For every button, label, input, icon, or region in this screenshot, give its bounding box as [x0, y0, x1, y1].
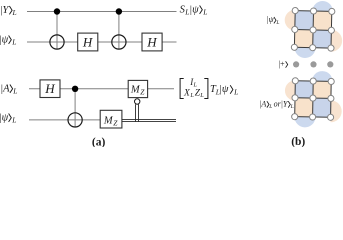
- label |A>_L or |Y>_L for lattice 2: [259, 99, 293, 110]
- svg-text:|ψ: |ψ: [0, 34, 9, 45]
- lattice 1: Z stabilizer top bump: [312, 1, 333, 12]
- classical control open circle: [135, 99, 140, 104]
- svg-text:|Y: |Y: [281, 99, 289, 108]
- lattice 2: Z stabilizer top bump: [312, 71, 333, 82]
- CNOT 1 vertical wire: [56, 12, 58, 49]
- lattice 1 qubit vertices: [291, 7, 335, 51]
- label I_L upper matrix entry: [189, 77, 197, 89]
- svg-text:L: L: [189, 92, 194, 99]
- CNOT 2 control dot: [116, 8, 122, 14]
- label |psi>_L for lattice 1: [266, 15, 279, 26]
- lattice 1: X stabilizer right bump: [331, 30, 342, 52]
- bracket left of correction matrix: [180, 79, 184, 99]
- svg-text:L: L: [275, 20, 279, 26]
- classical vertical double wire: [136, 104, 139, 121]
- svg-text:|Y: |Y: [0, 5, 9, 16]
- ancilla qubit dot 1: [293, 61, 299, 67]
- label X_L Z_L lower matrix entry: [183, 88, 204, 99]
- lattice 2 grid lines: [295, 81, 332, 118]
- CNOT 3 target: [68, 113, 82, 127]
- lattice 2: plaquette orange bottom-left: [295, 98, 313, 117]
- lattice 2: plaquette orange top-right: [313, 81, 331, 98]
- svg-text:|ψ: |ψ: [189, 4, 199, 15]
- lattice 1: plaquette orange top-right: [313, 11, 332, 30]
- svg-text:|A: |A: [259, 99, 266, 108]
- CNOT 2 vertical wire: [118, 12, 120, 49]
- CNOT 3 vertical wire: [74, 89, 76, 127]
- wire qubit |psi>_L fourth line: [29, 119, 100, 121]
- lattice 1: X stabilizer left bump: [284, 10, 295, 31]
- gate M_Z top measurement: [128, 80, 147, 97]
- svg-text:L: L: [233, 87, 238, 96]
- bracket right of correction matrix: [204, 79, 208, 99]
- lattice 1: plaquette orange bottom-left: [294, 29, 313, 47]
- svg-text:|ψ: |ψ: [266, 15, 274, 24]
- label |psi>_L (top circuit): [0, 34, 16, 46]
- lattice 2: plaquette blue top-left: [295, 81, 313, 98]
- lattice 2: X stabilizer left bump: [285, 80, 296, 101]
- ancilla qubit dot 2: [310, 61, 316, 67]
- svg-text:H: H: [146, 34, 157, 49]
- CNOT 1 target: [50, 35, 64, 49]
- lattice 2: X stabilizer right bump: [330, 100, 341, 122]
- svg-text:|ψ: |ψ: [219, 84, 229, 95]
- label |+> ancilla: [279, 60, 288, 69]
- svg-text:(a): (a): [92, 136, 106, 147]
- svg-text:L: L: [11, 38, 16, 47]
- gate H 1: [78, 33, 98, 51]
- svg-text:|+: |+: [279, 60, 286, 69]
- label T_L |psi>_L output: [210, 84, 238, 96]
- lattice 1: Z stabilizer bottom bump: [294, 47, 315, 58]
- wire qubit |psi>_L second line: [27, 41, 177, 43]
- CNOT 2 target: [112, 35, 126, 49]
- svg-text:|A: |A: [0, 83, 10, 94]
- label S_L |psi>_L output: [180, 4, 208, 16]
- gate H 3: [40, 80, 60, 98]
- CNOT 3 control dot: [72, 86, 78, 92]
- wire qubit |Y>_L top line: [27, 11, 177, 13]
- lattice 1 grid lines: [294, 11, 331, 49]
- svg-text:H: H: [82, 34, 93, 49]
- lattice 2 qubit vertices: [292, 78, 335, 121]
- svg-text:H: H: [44, 81, 55, 96]
- lattice 2: Z stabilizer bottom bump: [294, 117, 315, 128]
- svg-text:L: L: [199, 92, 204, 99]
- svg-text:L: L: [12, 87, 17, 96]
- wire qubit |A>_L third line: [29, 88, 174, 90]
- gate H 2: [142, 33, 162, 51]
- lattice 1: plaquette blue bottom-right: [313, 30, 332, 48]
- CNOT 1 control dot: [54, 8, 60, 14]
- lattice 2: plaquette blue bottom-right: [313, 98, 331, 117]
- lattice 1: plaquette blue top-left: [295, 11, 314, 30]
- svg-text:(b): (b): [291, 136, 305, 147]
- svg-text:L: L: [12, 8, 17, 17]
- svg-text:L: L: [11, 116, 16, 125]
- ancilla qubit dot 3: [327, 61, 333, 67]
- svg-text:L: L: [290, 104, 294, 110]
- label |A>_L: [0, 83, 17, 95]
- label |Y>_L: [0, 5, 17, 17]
- label |psi>_L (bottom circuit): [0, 112, 16, 124]
- svg-text:|ψ: |ψ: [0, 112, 9, 123]
- gate M_Z bottom measurement: [100, 110, 122, 128]
- svg-text:L: L: [202, 8, 207, 17]
- classical horizontal double wire: [122, 120, 176, 122]
- svg-text:L: L: [268, 104, 272, 110]
